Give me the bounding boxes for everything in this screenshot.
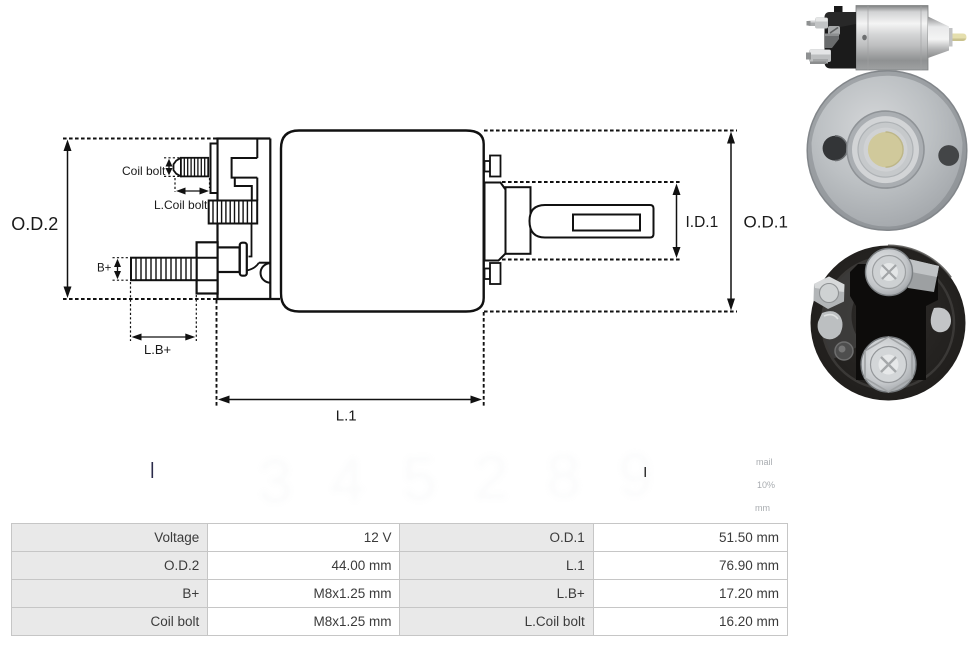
coil bolt head slot notch xyxy=(232,158,258,178)
watermark ghost xyxy=(152,441,776,517)
inner channel line down to washer xyxy=(249,224,252,257)
photo3 outer black body xyxy=(811,246,966,401)
L.Coil bolt thread block xyxy=(209,201,258,224)
photo3 lower bolt xyxy=(861,337,916,392)
svg-text:L.B+: L.B+ xyxy=(144,342,171,357)
svg-text:B+: B+ xyxy=(97,263,112,275)
photo3 upper bolt bracket xyxy=(905,258,939,292)
coil bolt tip xyxy=(174,158,182,177)
dimension L.1 arrow xyxy=(218,396,482,404)
photo3 black contact plate xyxy=(850,264,938,380)
dimension I.D.1 extension line top xyxy=(502,181,681,183)
dimension L.B+ arrow xyxy=(132,334,196,341)
dimension B+ arrow xyxy=(114,259,121,280)
B+ thread xyxy=(131,258,197,281)
photo: solenoid side view xyxy=(806,6,967,71)
watermark tick 1 xyxy=(152,462,154,478)
dimension L.Coil bolt extension line left xyxy=(174,178,176,192)
dimension L.Coil bolt arrow xyxy=(176,188,209,195)
solenoid main cylinder body xyxy=(281,131,484,312)
plunger rod slot xyxy=(573,215,640,231)
svg-text:10%: 10% xyxy=(757,480,775,490)
mounting stud upper on body right xyxy=(485,156,501,177)
svg-text:O.D.2: O.D.2 xyxy=(11,214,58,234)
dimension B+ extension line top xyxy=(113,257,132,259)
photo3 small rivet lower-left xyxy=(835,342,853,360)
svg-text:O.D.1: O.D.1 xyxy=(744,213,788,232)
photo1 bottom terminal nut xyxy=(806,50,831,65)
cap inner vertical line mid xyxy=(256,178,258,201)
photo1 cream pin xyxy=(953,34,967,42)
dimension O.D.2 extension line top xyxy=(63,138,218,140)
dimension O.D.2 extension line bottom xyxy=(63,298,218,300)
svg-text:I.D.1: I.D.1 xyxy=(686,214,719,231)
dimension L.B+ extension line right xyxy=(195,295,197,341)
mounting stud lower on body right xyxy=(485,263,501,284)
photo3 inner face ring xyxy=(822,257,954,389)
svg-text:L.Coil bolt: L.Coil bolt xyxy=(154,198,208,212)
photo2 center boss rings xyxy=(847,111,924,188)
photo3 left solder blob xyxy=(818,311,843,339)
photo1 black cap xyxy=(825,12,857,69)
dimension B+ extension line bottom xyxy=(113,279,132,281)
photo1 top terminal bolt xyxy=(807,18,829,29)
dimension L.B+ extension line left xyxy=(130,282,132,341)
dimension O.D.1 extension line top xyxy=(484,130,737,132)
dimension I.D.1 extension line bottom xyxy=(502,259,681,261)
photo: flange disc front view xyxy=(807,71,967,231)
cap slot plate for coil bolt xyxy=(211,144,218,194)
dimension O.D.1 arrow xyxy=(727,132,735,311)
plunger contact arc xyxy=(261,263,271,283)
svg-text:L.1: L.1 xyxy=(336,408,357,425)
photo1 bracket piece xyxy=(825,34,839,49)
svg-text:345289: 345289 xyxy=(257,441,653,517)
cap inner vertical line top xyxy=(256,139,258,159)
svg-text:Coil bolt: Coil bolt xyxy=(122,164,166,178)
coil bolt channel step xyxy=(235,178,252,201)
photo1 cylinder seam lines xyxy=(868,6,921,70)
dimension L.1 extension line left xyxy=(216,300,218,407)
photo: solenoid bottom view xyxy=(811,245,966,400)
coil bolt thread xyxy=(181,158,208,177)
svg-text:mm: mm xyxy=(755,503,770,513)
dimension Coil bolt extension line bottom xyxy=(164,175,181,177)
photo1 small hole on body xyxy=(862,35,867,41)
dimension Coil bolt arrow xyxy=(166,159,173,176)
photo2 disc xyxy=(807,71,967,231)
photo1 cap top nub xyxy=(834,6,843,14)
dimension O.D.1 extension line bottom xyxy=(484,311,737,313)
svg-text:mail: mail xyxy=(756,457,773,467)
end cone shoulder xyxy=(485,183,506,261)
photo2 cream center xyxy=(868,132,903,167)
photo2 right hole xyxy=(938,145,959,166)
B+ washer xyxy=(240,243,247,276)
spec table xyxy=(11,523,788,636)
cap bracket outline xyxy=(218,139,281,300)
end cylinder section xyxy=(506,187,531,254)
photo1 step small xyxy=(949,28,953,47)
fillet curve washer to seat xyxy=(247,263,259,271)
dimension O.D.2 arrow xyxy=(64,140,72,299)
dimension L.Coil bolt extension line right xyxy=(209,178,211,188)
photo3 upper-left hex bolt xyxy=(814,277,845,310)
B+ terminal inner square xyxy=(218,247,240,272)
photo2 left hole xyxy=(823,136,848,161)
dimension Coil bolt extension line top xyxy=(164,157,181,159)
dimension L.1 extension line right xyxy=(483,312,485,407)
photo3 right solder blob xyxy=(931,308,951,333)
photo1 silver cylinder xyxy=(856,6,928,71)
cap inner right panel line xyxy=(269,139,271,300)
B+ hex nut xyxy=(197,242,218,293)
plunger rod xyxy=(530,205,654,238)
photo3 upper bolt xyxy=(866,249,913,296)
watermark tick 2 xyxy=(645,467,647,477)
photo1 step cone xyxy=(928,17,949,59)
photo3 grey metal face left xyxy=(822,257,888,359)
dimension I.D.1 arrow xyxy=(673,184,681,259)
photo1 screw head in cap xyxy=(828,26,840,35)
cap inner tick at contact seat xyxy=(259,262,270,264)
